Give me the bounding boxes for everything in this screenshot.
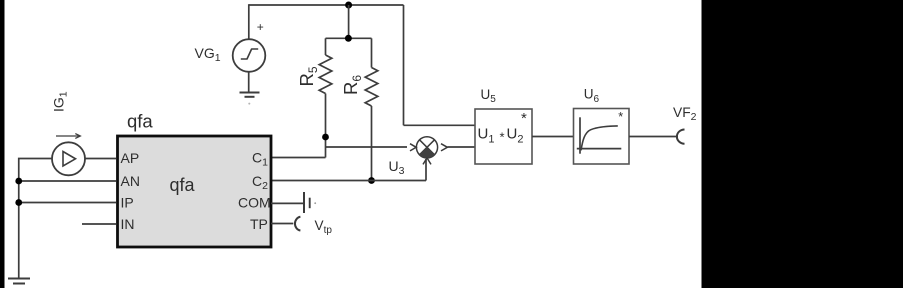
svg-text:TP: TP: [250, 216, 268, 232]
wire R5 top lead: [325, 38, 327, 55]
junction top rail: [345, 2, 352, 9]
wire U5 upper input: [404, 124, 476, 126]
svg-text:U5: U5: [481, 87, 497, 105]
wire rail to R bar: [348, 5, 350, 38]
svg-text:qfa: qfa: [170, 175, 196, 195]
wire IP: [19, 202, 116, 204]
svg-text:*: *: [618, 110, 623, 124]
wire R5 bottom lead: [325, 94, 327, 158]
wire U3 output: [448, 146, 476, 148]
wire right rail down: [403, 5, 405, 125]
wire TP stub: [271, 223, 293, 225]
wire U6 to VF2: [629, 136, 678, 138]
svg-text:IG1: IG1: [51, 91, 70, 112]
wire R6 bottom lead: [371, 106, 373, 181]
svg-text:*: *: [500, 130, 505, 145]
ground left: [8, 279, 30, 284]
junction R6 C2: [368, 177, 375, 184]
wire C1: [271, 157, 326, 159]
wire VG1 bottom lead: [248, 72, 250, 93]
wire C2: [271, 180, 426, 182]
wire U3 input: [326, 146, 408, 148]
junction R5 node: [322, 134, 329, 141]
multiplier U3: [410, 137, 447, 165]
ground VG1: [240, 93, 260, 97]
block U6: [574, 109, 630, 165]
svg-text:U3: U3: [389, 158, 405, 177]
svg-text:AN: AN: [121, 173, 140, 189]
junction IP: [15, 199, 22, 206]
svg-text:*: *: [521, 110, 527, 127]
svg-text:IP: IP: [121, 195, 134, 211]
svg-text:VG1: VG1: [195, 45, 221, 64]
resistor R5: [319, 55, 332, 93]
resistor R6: [365, 68, 378, 106]
junction R bar: [345, 35, 352, 42]
svg-text:U6: U6: [584, 87, 600, 105]
wire AP: [85, 158, 116, 160]
jumper COM: [304, 192, 310, 213]
wire COM stub: [271, 202, 303, 204]
terminal VF2: [677, 130, 685, 144]
svg-text:R5: R5: [296, 66, 320, 86]
block qfa: [118, 111, 272, 248]
wire VG1 top lead: [248, 4, 250, 39]
svg-text:Vtp: Vtp: [315, 218, 333, 236]
wire IG1 left lead: [19, 158, 52, 278]
wire R5 R6 top bar: [326, 37, 372, 39]
label IG1 arrow: [56, 134, 80, 139]
wire IN stub: [82, 223, 116, 225]
wire top rail: [249, 4, 404, 6]
svg-text:qfa: qfa: [127, 111, 153, 132]
svg-text:VF2: VF2: [673, 105, 697, 123]
svg-text:IN: IN: [121, 216, 135, 232]
svg-text:COM: COM: [238, 195, 271, 211]
wire R6 top lead: [371, 38, 373, 67]
wire AN: [19, 180, 116, 182]
wire U5 to U6: [532, 136, 574, 138]
wire U3 bottom lead: [425, 159, 427, 181]
voltage source VG1: [233, 39, 266, 72]
svg-text:+: +: [257, 20, 264, 34]
block U5: [475, 109, 532, 164]
svg-text:AP: AP: [121, 150, 140, 166]
terminal TP: [295, 217, 300, 231]
current source IG1: [52, 142, 85, 175]
svg-text:R6: R6: [340, 75, 364, 95]
junction AN: [15, 178, 22, 185]
